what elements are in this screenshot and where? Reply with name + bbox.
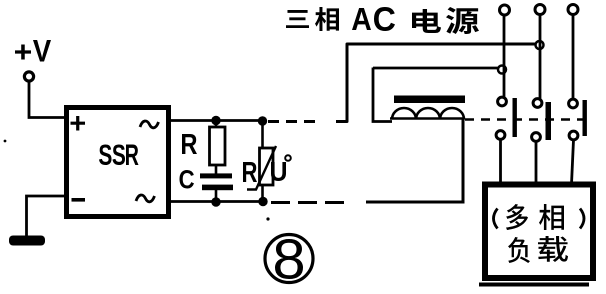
phase 1 terminal [500,5,510,15]
pin label - [72,198,86,202]
phase 2 wire [539,15,542,99]
node: junction dot top of R [211,116,220,125]
ground [9,236,45,246]
label ) [580,209,584,229]
load box [485,185,593,279]
wire dashed bottom run [271,201,350,204]
wire SSR ~ bottom output [168,200,266,203]
phase 3 wire [572,15,575,100]
pin label ~ top [140,121,159,128]
node: junction ring on phase 2 [536,41,544,49]
label 负 [508,237,530,263]
capacitor C [215,165,218,174]
figure number 8 circled [265,235,313,283]
pin label ~ bottom [136,195,155,202]
label 载 [538,236,568,262]
phase 3 terminal [568,5,578,15]
contact 1 [496,97,517,184]
coil core bar [394,96,465,104]
wire +V to SSR + input [29,81,66,118]
coil windings [390,108,464,119]
label R (snubber resistor) [182,134,197,154]
title: three-phase AC power label 三相AC 电源 [286,7,479,34]
node: junction dot top of varistor [258,116,267,125]
label R of RU [243,162,257,182]
wire elbow up to phase 2 feed [336,44,538,122]
label C (snubber cap) [179,170,194,189]
terminal +V [24,72,33,81]
ink speck below varistor [266,217,269,220]
wire SSR ~ top output [168,119,266,122]
label +V [15,40,51,62]
label 多 [506,204,528,230]
wire bottom solid to coil [366,119,463,202]
load box bottom streak [479,283,589,287]
wire SSR - to ground [27,196,67,236]
wire dashed top run [268,120,318,123]
node: junction ring on phase 1 [498,66,506,74]
varistor diagonal stroke [247,146,276,190]
contact 3 [569,99,587,184]
resistor R body [215,120,218,127]
contactor coil left lead [373,68,392,122]
SSR module U1 [67,108,169,217]
label ( [494,209,498,229]
label SSR [99,144,139,165]
contact 2 [532,99,551,184]
label 相 [539,204,564,230]
node: junction dot bottom of R/C [211,197,220,206]
ink speck left [4,140,7,143]
label U of RU [271,162,286,181]
pin label + [71,116,86,130]
degree mark on U [285,155,291,161]
phase 1 wire [503,15,506,97]
node: junction dot bottom of varistor [258,197,267,206]
mechanical linkage dashed line [465,118,589,121]
varistor RU body [261,121,264,148]
phase 2 terminal [535,5,545,15]
wire coil to phase 1 [373,67,500,70]
